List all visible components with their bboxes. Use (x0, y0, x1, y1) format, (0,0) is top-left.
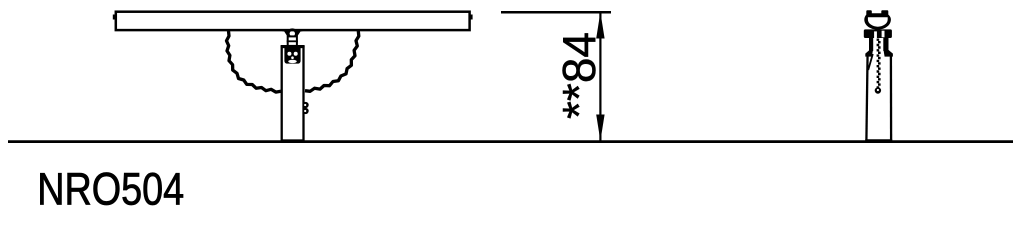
side view legs (865, 38, 893, 57)
right rope (305, 31, 359, 91)
post (front view) (282, 47, 304, 141)
dimension line with arrows (596, 12, 604, 141)
rope shackle on post (303, 102, 309, 114)
dimension extension line (501, 11, 611, 14)
svg-text:NRO504: NRO504 (37, 163, 184, 213)
side view chain (875, 39, 881, 94)
side view beam clamp (864, 10, 891, 29)
side view post (865, 53, 892, 141)
left rope (227, 31, 281, 92)
pivot housing (281, 46, 305, 64)
beam (front view) (113, 12, 473, 30)
side view pivot band (864, 29, 892, 38)
svg-text:**84: **84 (553, 32, 605, 119)
pivot bracket under beam (283, 28, 303, 46)
ground line (8, 140, 1013, 143)
